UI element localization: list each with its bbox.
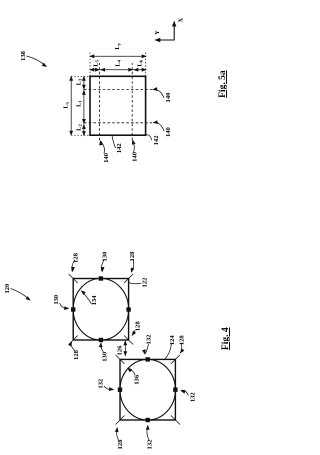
svg-text:124: 124	[169, 335, 176, 346]
svg-text:120: 120	[4, 283, 11, 294]
svg-text:140: 140	[132, 151, 139, 162]
svg-text:130: 130	[102, 251, 109, 262]
svg-text:130: 130	[53, 294, 60, 305]
svg-text:Ly: Ly	[114, 42, 121, 49]
svg-text:Fig. 4: Fig. 4	[221, 327, 231, 350]
svg-text:134: 134	[91, 295, 98, 306]
svg-text:Fig. 5a: Fig. 5a	[218, 70, 228, 98]
svg-text:128: 128	[73, 349, 80, 360]
svg-text:128: 128	[178, 335, 185, 346]
svg-text:128: 128	[117, 439, 124, 450]
svg-text:Y: Y	[154, 30, 161, 35]
svg-text:132: 132	[145, 334, 152, 345]
svg-text:130: 130	[101, 351, 108, 362]
svg-text:L3: L3	[75, 78, 82, 85]
svg-text:132: 132	[98, 378, 105, 389]
svg-text:142: 142	[153, 135, 160, 146]
svg-text:L4: L4	[115, 59, 122, 66]
svg-text:132: 132	[190, 392, 197, 403]
svg-text:140: 140	[165, 126, 172, 137]
svg-text:142: 142	[116, 143, 123, 154]
svg-text:132: 132	[147, 439, 154, 450]
svg-text:L6: L6	[137, 59, 144, 66]
svg-text:138: 138	[20, 50, 27, 61]
svg-text:L5: L5	[93, 59, 100, 66]
svg-text:136: 136	[134, 374, 141, 385]
svg-text:140: 140	[165, 92, 172, 103]
svg-text:140: 140	[103, 152, 110, 163]
svg-text:128: 128	[72, 252, 79, 263]
svg-text:L2: L2	[75, 123, 82, 130]
svg-text:L1: L1	[75, 99, 82, 106]
svg-text:122: 122	[142, 277, 149, 288]
svg-text:128: 128	[135, 321, 142, 332]
svg-text:128: 128	[129, 251, 136, 262]
svg-text:126: 126	[117, 345, 124, 356]
svg-text:X: X	[178, 17, 185, 22]
svg-text:Lx: Lx	[62, 101, 69, 108]
